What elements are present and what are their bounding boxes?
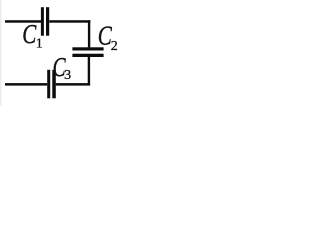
wire top-left <box>5 20 41 23</box>
wire right vertical lower <box>88 57 90 86</box>
wire bottom-left <box>5 83 47 86</box>
wire top-right <box>49 20 90 23</box>
label C2 <box>98 21 113 51</box>
svg-text:2: 2 <box>111 39 118 54</box>
label C1 <box>22 20 37 50</box>
capacitor C1 left plate <box>41 7 44 36</box>
capacitor C3 right plate <box>52 70 56 99</box>
label C3 <box>53 53 66 83</box>
label C1 subscript 1 <box>36 37 43 52</box>
wire right vertical upper <box>88 20 90 47</box>
label C2 subscript 2 <box>111 39 118 54</box>
svg-text:1: 1 <box>36 37 43 52</box>
capacitor C2 bottom plate <box>72 54 103 57</box>
capacitor C3 left plate <box>47 70 50 99</box>
capacitor C1 right plate <box>46 7 49 36</box>
label C3 subscript 3 <box>64 68 71 83</box>
capacitor C2 top plate <box>72 47 103 50</box>
wire bottom-right <box>56 83 90 86</box>
svg-text:3: 3 <box>64 68 71 83</box>
